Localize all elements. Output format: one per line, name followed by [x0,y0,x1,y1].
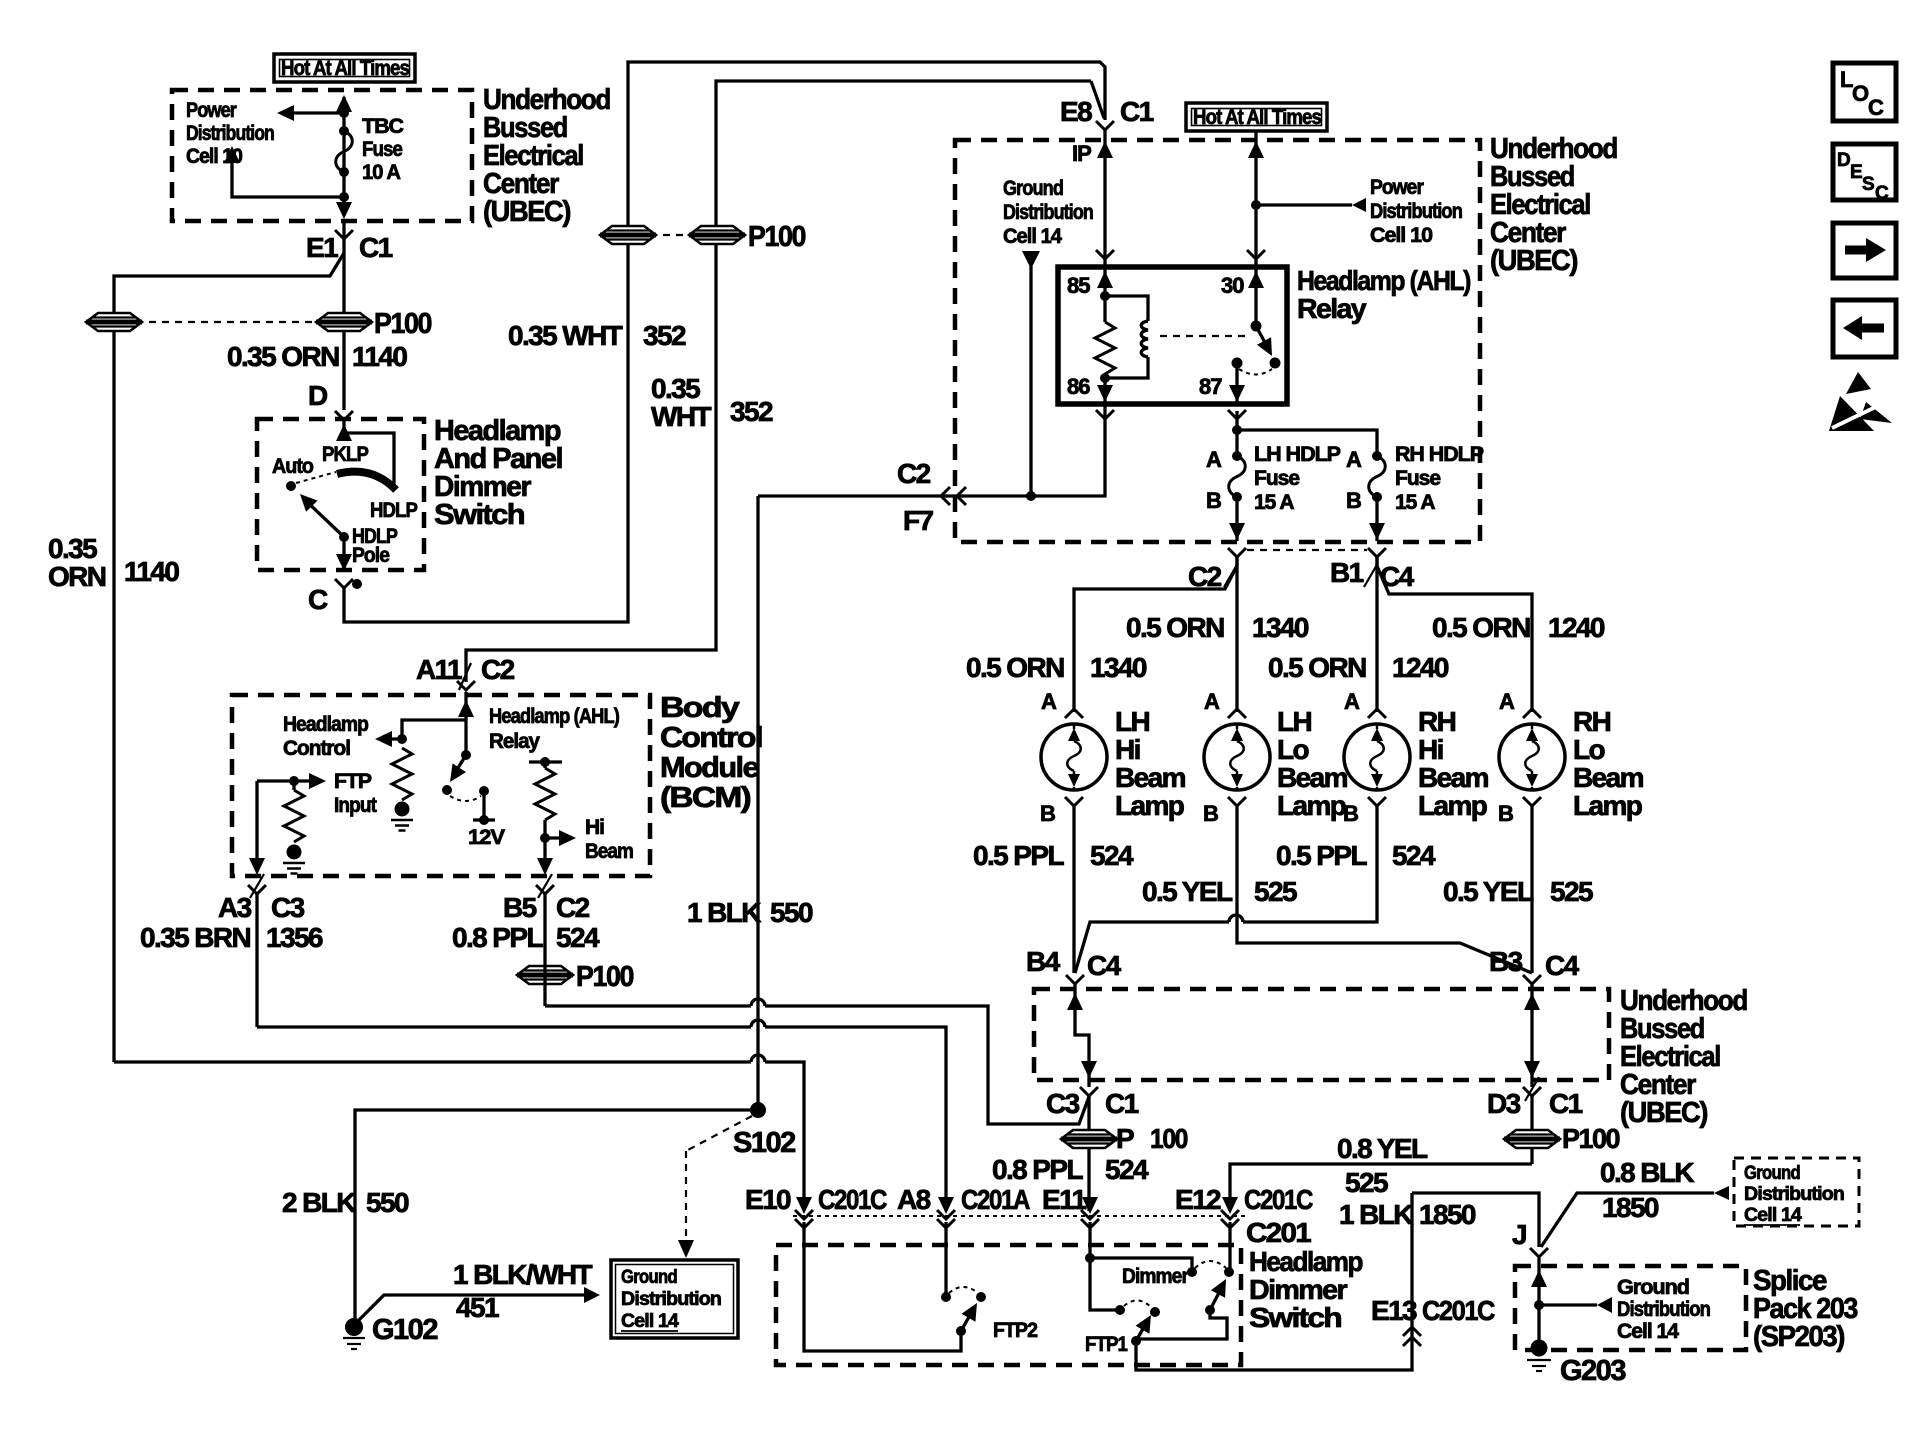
relay pin 87 [1199,363,1246,419]
connector E12 C201C [1175,1184,1313,1228]
svg-text:A: A [1206,447,1222,472]
wire: E12 to dimmer contact [1228,1222,1231,1268]
svg-text:1356: 1356 [266,922,323,953]
wire: 0.35 WHT 352 outer run (C to E8) [344,62,1105,622]
label: TBC Fuse 10 A [362,115,404,184]
node: 12V stub [468,786,505,849]
wire: switch output to C [336,537,352,572]
svg-text:12V: 12V [468,826,505,849]
label box: Hot At All Times (right) [1186,103,1327,131]
connector P100 (left pair, on ORN wire) [86,313,142,331]
svg-text:F7: F7 [903,505,934,536]
svg-text:D: D [1837,150,1850,171]
connector E8 C1 [1060,96,1154,130]
ground (BCM internal, headlamp control) [391,802,413,831]
svg-text:Distribution: Distribution [1003,201,1093,224]
node: ground distribution junction [1026,491,1036,501]
label: 0.5 ORN 1340 (LH Hi) [966,652,1147,683]
resistor: Hi Beam sense [529,757,562,866]
label: Headlamp Control [283,713,368,760]
svg-text:A: A [1204,689,1220,714]
label: 0.5 YEL 525 (RH Lo) [1443,876,1593,907]
wire: dashed ground reference from S102 [678,1116,752,1258]
svg-text:Cell 10: Cell 10 [1370,224,1432,247]
fuse RH HDLP Fuse 15 A [1346,447,1385,513]
relay box: Headlamp (AHL) Relay [1058,267,1287,404]
label: HDLP Pole [352,525,398,567]
connector P100 (on 0.8 PPL wire) [517,961,633,993]
svg-text:15 A: 15 A [1395,491,1435,514]
svg-text:Ground: Ground [1617,1276,1689,1299]
svg-text:D: D [308,380,328,411]
svg-text:D3: D3 [1487,1088,1521,1119]
label box: Hot At All Times (left) [274,54,415,82]
svg-text:C2: C2 [481,654,515,685]
arrow down: E12 [1222,1197,1238,1214]
connector P100 (on TBC feed wire) [316,308,431,340]
svg-text:C1: C1 [1549,1088,1583,1119]
label: Headlamp (AHL) Relay [1297,265,1470,324]
svg-text:524: 524 [1392,840,1436,871]
arrow down: E11 [1082,1197,1098,1214]
svg-text:1140: 1140 [124,556,179,587]
connector A (LH Lo) [1204,689,1246,718]
button: arrow left [1833,300,1896,357]
wire: 0.8 PPL 524 run (BCM B5 to C3/C1) [545,894,1090,1124]
svg-text:Fuse: Fuse [1254,467,1299,490]
svg-text:P100: P100 [748,221,805,253]
svg-text:C2: C2 [897,458,931,489]
label: 0.35 BRN 1356 [140,922,323,953]
svg-text:(BCM): (BCM) [660,782,751,814]
wire: branch to 0.35 ORN 1140 left run [114,253,344,1062]
connector B (RH Lo) [1498,797,1541,826]
svg-text:A: A [1346,447,1362,472]
label: 0.8 PPL 524 (E11 feed) [992,1154,1149,1185]
button: DESC [1833,144,1896,204]
wire: dashed link to 12V [450,796,481,801]
svg-text:0.5 PPL: 0.5 PPL [973,840,1064,871]
svg-text:E10: E10 [745,1184,791,1215]
label: Splice Pack 203 (SP203) [1753,1265,1858,1353]
label: Hi Beam [585,816,633,863]
Headlamp And Panel Dimmer Switch box (dashed) [257,419,424,570]
connector B3 C4 [1489,946,1580,984]
wire: LH Lo B crossover to B3 [1237,805,1532,973]
svg-text:0.35 ORN: 0.35 ORN [227,341,339,372]
wire: 0.35 BRN 1356 run (BCM A3 to dimmer A8) [257,894,946,1201]
svg-text:FTP: FTP [334,770,372,793]
svg-text:Power: Power [186,99,237,122]
svg-text:1240: 1240 [1548,612,1605,643]
svg-text:ORN: ORN [48,561,106,592]
Headlamp Dimmer Switch box (dashed) [776,1245,1241,1365]
svg-text:0.8 YEL: 0.8 YEL [1337,1133,1428,1164]
svg-text:Dimmer: Dimmer [1122,1265,1189,1288]
relay coil resistor [1095,296,1115,378]
relay coil winding [1105,296,1148,378]
svg-text:Cell 14: Cell 14 [621,1311,679,1332]
wire: RH Lo B to B3 [1530,805,1533,973]
connector A (RH Hi) [1344,689,1386,718]
svg-text:Auto: Auto [272,455,313,478]
svg-text:TBC: TBC [362,115,404,138]
svg-text:J: J [1512,1219,1526,1250]
svg-text:525: 525 [1254,876,1297,907]
wire: 2 BLK 550 (S102 to G102) [355,1110,758,1320]
svg-text:C201C: C201C [818,1184,887,1215]
svg-text:451: 451 [456,1292,499,1323]
svg-text:(UBEC): (UBEC) [1620,1097,1708,1129]
svg-text:1 BLK: 1 BLK [1339,1199,1413,1230]
svg-text:A8: A8 [897,1184,931,1215]
svg-text:E1: E1 [306,232,338,263]
svg-text:0.5 ORN: 0.5 ORN [966,652,1064,683]
connector A (RH Lo) [1499,689,1541,718]
button: arrow right [1833,223,1896,278]
svg-text:Control: Control [283,737,350,760]
svg-text:Distribution: Distribution [186,122,274,145]
wire: fuse feed from pin 87 [1232,411,1377,456]
wire: B4 through UBEC to C3 [1067,983,1097,1087]
svg-text:C201A: C201A [961,1184,1030,1215]
label: 0.5 ORN 1240 (RH Lo) [1432,612,1605,643]
label: LH Lo Beam Lamp [1277,706,1348,821]
svg-text:1240: 1240 [1392,652,1449,683]
wire: IP feed to relay pin 85 [1096,130,1114,267]
svg-text:LH: LH [1115,706,1150,737]
svg-text:10 A: 10 A [362,161,401,184]
wire: Hi Beam arrow [540,830,576,846]
svg-text:C3: C3 [1046,1088,1080,1119]
svg-text:Body: Body [660,692,740,724]
svg-text:524: 524 [1105,1154,1149,1185]
label: RH Lo Beam Lamp [1573,706,1644,821]
wire: RH Hi B crossover to B4 [1075,805,1377,973]
svg-text:P100: P100 [374,308,431,340]
svg-text:Distribution: Distribution [1744,1184,1844,1205]
label: 1 BLK 1850 [1339,1199,1476,1230]
relay switch contact 87 [1232,358,1273,375]
connector P100 (on outer WHT wire) [600,226,656,244]
connector J [1512,1219,1548,1257]
UBEC box (top left, dashed) [172,90,472,221]
svg-text:P: P [1116,1123,1134,1154]
node: power distribution tap [1251,200,1261,210]
svg-text:0.5 YEL: 0.5 YEL [1142,876,1233,907]
connector A (LH Hi) [1041,689,1083,718]
svg-text:B3: B3 [1489,946,1523,977]
svg-text:15 A: 15 A [1254,491,1294,514]
wire: 1 BLK/WHT 451 to ground distribution [358,1287,600,1321]
svg-text:Hot At All Times: Hot At All Times [281,57,409,80]
arrow up to Hot At All Times [336,95,352,112]
svg-text:A11: A11 [416,654,462,685]
label: 0.5 YEL 525 (LH Lo) [1142,876,1297,907]
svg-text:Lamp: Lamp [1277,790,1346,821]
svg-text:Ground: Ground [1744,1163,1800,1184]
lamp RH Hi Beam Lamp [1344,724,1410,790]
arrow down: A8 [938,1197,954,1214]
wire: LH Hi B to B4 [1072,805,1075,973]
svg-text:Headlamp: Headlamp [283,713,368,736]
wire: 0.5 ORN 1340 to LH Hi Beam [1074,557,1237,712]
label: Headlamp And Panel Dimmer Switch [434,415,562,531]
svg-text:G203: G203 [1560,1355,1626,1387]
connector C2 F7 [897,458,966,536]
svg-text:Pole: Pole [352,544,389,567]
label box: Ground Distribution Cell 14 (dashed, right) [1734,1158,1859,1226]
label: LH HDLP Fuse 15 A [1254,443,1341,514]
label: Ground Distribution Cell 14 (right UBEC) [1003,177,1093,248]
resistor: FTP pull-down [284,781,304,842]
label: 1 BLK 550 [687,897,813,928]
label: Headlamp (AHL) Relay [489,705,619,753]
svg-text:Beam: Beam [585,840,633,863]
connector C2 (LH fuse out) [1188,548,1246,592]
svg-text:Beam: Beam [1418,762,1489,793]
connector C [308,579,362,615]
label: FTP Input [334,770,377,817]
wire: branch to Headlamp Control [375,720,466,747]
lamp LH Lo Beam Lamp [1204,724,1270,790]
svg-text:Distribution: Distribution [1617,1298,1710,1321]
svg-text:Hi: Hi [1115,734,1140,765]
lamp LH Hi Beam Lamp [1041,724,1107,790]
connector B (LH Hi) [1040,797,1083,826]
label: 0.35 ORN 1140 [227,341,407,372]
svg-text:E13: E13 [1371,1295,1417,1326]
svg-text:87: 87 [1199,374,1222,399]
svg-text:525: 525 [1345,1167,1388,1198]
svg-text:B: B [1346,488,1361,513]
svg-text:E8: E8 [1060,96,1092,127]
switch contact PKLP (thick arc) [337,472,396,490]
svg-text:1 BLK: 1 BLK [687,897,761,928]
svg-text:Distribution: Distribution [621,1289,721,1310]
svg-text:Power: Power [1370,176,1424,199]
svg-text:524: 524 [556,922,600,953]
fuse TBC Fuse 10 A [336,126,353,177]
svg-text:Lamp: Lamp [1418,790,1487,821]
svg-text:0.5 ORN: 0.5 ORN [1432,612,1530,643]
label: 0.5 PPL 524 (RH Hi) [1276,840,1436,871]
svg-text:0.5 ORN: 0.5 ORN [1126,612,1224,643]
wire: dashed P100 tie [136,321,322,323]
svg-text:Hi: Hi [585,816,604,839]
svg-text:Distribution: Distribution [1370,200,1462,223]
svg-text:Ground: Ground [621,1267,677,1288]
svg-text:0.8 PPL: 0.8 PPL [992,1154,1083,1185]
svg-text:B: B [1203,801,1218,826]
svg-text:1850: 1850 [1419,1199,1476,1230]
wire: B3 through UBEC to D3 [1524,983,1540,1087]
connector D [308,380,353,420]
connector A8 C201A [897,1184,1030,1228]
wire: pin 30 feed from Hot At All Times [1247,131,1265,267]
svg-text:1140: 1140 [352,341,407,372]
label: 0.8 PPL 524 [452,922,600,953]
connector B1 C4 (RH fuse out) [1330,548,1415,592]
wire: splice pack internal to G203 [1531,1258,1612,1342]
svg-text:C201: C201 [1246,1217,1311,1248]
svg-text:Cell 14: Cell 14 [1744,1205,1802,1226]
label: Body Control Module (BCM) [660,692,762,814]
wire: A11 entry into BCM [458,692,474,755]
svg-text:B5: B5 [503,892,537,923]
wire: dashed C4 connector tie [1247,549,1367,551]
wire: E10 into switch [804,1222,961,1351]
svg-text:C: C [1875,183,1889,204]
svg-text:Relay: Relay [489,730,540,753]
svg-text:Lamp: Lamp [1115,790,1184,821]
svg-text:(UBEC): (UBEC) [1490,245,1578,277]
label: Power Distribution Cell 10 [186,99,274,168]
wire: 0.35 ORN 1140 run (to dimmer E10) [114,1055,804,1201]
svg-text:Dimmer: Dimmer [1249,1274,1348,1305]
label: 0.5 PPL 524 (LH Hi) [973,840,1134,871]
svg-text:Beam: Beam [1277,762,1348,793]
label: Underhood Bussed Electrical Center (UBEC) right [1490,133,1617,277]
svg-text:C: C [1868,95,1884,120]
switch lever HDLP Pole [294,488,349,542]
svg-text:E12: E12 [1175,1184,1221,1215]
label: RH HDLP Fuse 15 A [1395,443,1484,514]
ground (BCM internal, FTP) [283,845,305,874]
label: Underhood Bussed Electrical Center (UBEC) bottom [1620,985,1747,1129]
node: Auto contact [286,481,296,491]
svg-text:Lamp: Lamp [1573,790,1642,821]
wire: 0.8 BLK 1850 to ground distribution [1541,1186,1729,1247]
wire: 0.5 ORN 1240 to RH Hi Beam [1375,557,1378,712]
switch FTP1 [1124,1300,1160,1346]
svg-text:352: 352 [730,396,773,427]
splice S102 [733,1102,795,1159]
svg-text:B4: B4 [1026,946,1061,977]
Body Control Module box (dashed) [232,695,650,876]
label: Ground Distribution Cell 14 (splice pack) [1617,1276,1710,1343]
svg-text:C4: C4 [1545,950,1580,981]
svg-text:1 BLK/WHT: 1 BLK/WHT [453,1259,593,1290]
svg-text:RH HDLP: RH HDLP [1395,443,1484,466]
relay pin 30 [1221,267,1264,332]
connector P100 (on YEL wire) [1504,1094,1620,1164]
wire: 1 BLK 550 ground bus to S102 [756,496,759,1110]
wire: 1 BLK 1850 to J [1412,1193,1539,1247]
UBEC box (bottom, dashed) [1034,989,1609,1080]
wire: 0.5 ORN 1240 to RH Lo Beam [1377,557,1532,712]
svg-text:E11: E11 [1042,1184,1087,1215]
switch Dimmer [1187,1261,1234,1315]
label: 1 BLK/WHT 451 [453,1259,593,1323]
wire: dashed relay actuation link [1160,335,1246,337]
svg-text:Headlamp (AHL): Headlamp (AHL) [1297,265,1470,296]
svg-text:Headlamp (AHL): Headlamp (AHL) [489,705,619,728]
svg-text:86: 86 [1067,374,1090,399]
wire: branch to Power Distribution Cell 10 [1256,198,1366,212]
svg-text:Module: Module [660,752,759,784]
label: Power Distribution Cell 10 (right) [1370,176,1462,247]
svg-text:P100: P100 [1562,1123,1620,1154]
svg-text:B: B [1343,801,1358,826]
wire: ground return (86 to C2/F7) [758,404,1105,496]
connector E13 C201C [1371,1295,1495,1346]
svg-text:WHT: WHT [651,401,711,432]
svg-text:Relay: Relay [1297,293,1367,324]
connector P100 (on inner WHT wire) [689,221,805,253]
svg-text:HDLP: HDLP [370,499,418,522]
lamp RH Lo Beam Lamp [1499,724,1565,790]
svg-text:550: 550 [770,897,813,928]
svg-text:S: S [1862,174,1874,195]
svg-text:Ground: Ground [1003,177,1063,200]
svg-text:S102: S102 [733,1127,795,1159]
svg-text:C4: C4 [1087,950,1122,981]
svg-text:Cell 14: Cell 14 [1617,1320,1679,1343]
Splice Pack 203 box (dashed) [1515,1266,1746,1350]
svg-text:Switch: Switch [434,499,524,531]
svg-text:G102: G102 [372,1314,437,1346]
arrow down: B5 exit [537,858,553,875]
svg-text:Fuse: Fuse [362,138,402,161]
ground G102 [343,1314,437,1349]
svg-text:FTP2: FTP2 [993,1319,1037,1342]
svg-text:(SP203): (SP203) [1753,1321,1845,1353]
svg-text:IP: IP [1072,141,1091,166]
wire: dashed P100 tie [650,234,695,236]
connector C3 C1 [1046,1087,1139,1119]
svg-text:Control: Control [660,722,762,754]
svg-text:Beam: Beam [1115,762,1186,793]
wire: LH fuse output [1229,497,1245,541]
icon: ESD warning [1829,372,1892,431]
svg-text:Lo: Lo [1277,734,1310,765]
connector D3 C1 [1487,1077,1583,1119]
arrow down: E10 [796,1197,812,1214]
label: 0.35 WHT 352 [508,320,686,351]
label: C201 Headlamp Dimmer Switch [1246,1217,1362,1333]
svg-text:2 BLK: 2 BLK [282,1187,356,1218]
ground G203 [1527,1340,1626,1388]
svg-text:B1: B1 [1330,557,1364,588]
label: 0.5 ORN 1340 (LH Lo) [1126,612,1309,643]
label: RH Hi Beam Lamp [1418,706,1489,821]
svg-text:Cell 14: Cell 14 [1003,225,1062,248]
svg-text:1850: 1850 [1602,1192,1659,1223]
svg-text:100: 100 [1150,1123,1188,1154]
svg-text:RH: RH [1573,706,1611,737]
svg-text:C1: C1 [1105,1088,1139,1119]
connector A11 C2 [416,654,515,690]
svg-text:A: A [1499,689,1515,714]
connector B5 C2 [503,874,590,923]
relay switch lever [1256,326,1281,369]
svg-text:C: C [308,584,328,615]
svg-text:525: 525 [1550,876,1593,907]
resistor: headlamp control pull-down [392,748,412,800]
svg-text:B: B [1498,801,1513,826]
svg-text:C201C: C201C [1422,1295,1495,1326]
svg-text:O: O [1852,81,1869,106]
label: Underhood Bussed Electrical Center (UBEC) [483,84,610,228]
svg-text:C201C: C201C [1244,1184,1313,1215]
svg-text:C1: C1 [359,232,393,263]
svg-text:Input: Input [334,794,377,817]
switch FTP2 [956,1292,986,1336]
wire: TBC fuse feed vertical [342,97,345,206]
relay pin 85 [1067,267,1113,301]
wire: 0.8 YEL 525 run to E12 [1230,1164,1532,1201]
